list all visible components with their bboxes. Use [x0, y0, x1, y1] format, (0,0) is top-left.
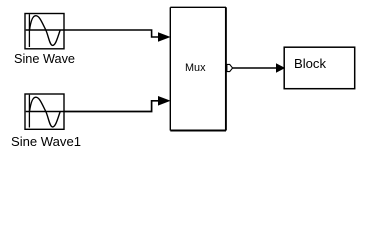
svg-text:Mux: Mux: [185, 62, 206, 74]
sine icon curve: [30, 16, 61, 46]
sine icon vertical axis: [28, 14, 30, 47]
arrowhead W2 into Mux in2: [158, 96, 171, 106]
block Mux U1 (tall rectangle): [170, 7, 226, 130]
svg-text:Sine Wave1: Sine Wave1: [11, 135, 81, 149]
svg-text:Sine Wave: Sine Wave: [14, 52, 75, 66]
sine icon horizontal axis: [26, 111, 64, 113]
block Block (subsystem rectangle): [284, 47, 355, 88]
port Mux out (open pentagon on right edge): [227, 64, 233, 71]
block Sine Wave1 (source block box): [25, 94, 64, 129]
wire W2: Sine Wave1 out to Mux in2 (with jog): [64, 101, 160, 112]
sine icon vertical axis: [28, 95, 30, 128]
block Sine Wave (source block box): [25, 14, 64, 49]
svg-text:Block: Block: [294, 57, 327, 71]
sine icon curve: [30, 97, 61, 127]
sine icon horizontal axis: [26, 29, 64, 31]
arrowhead W3 into Block: [276, 63, 285, 72]
arrowhead W1 into Mux in1: [158, 32, 171, 42]
wire W1: Sine Wave out to Mux in1 (with jog): [64, 30, 160, 37]
wire W3: Mux out to Block in: [233, 67, 278, 69]
